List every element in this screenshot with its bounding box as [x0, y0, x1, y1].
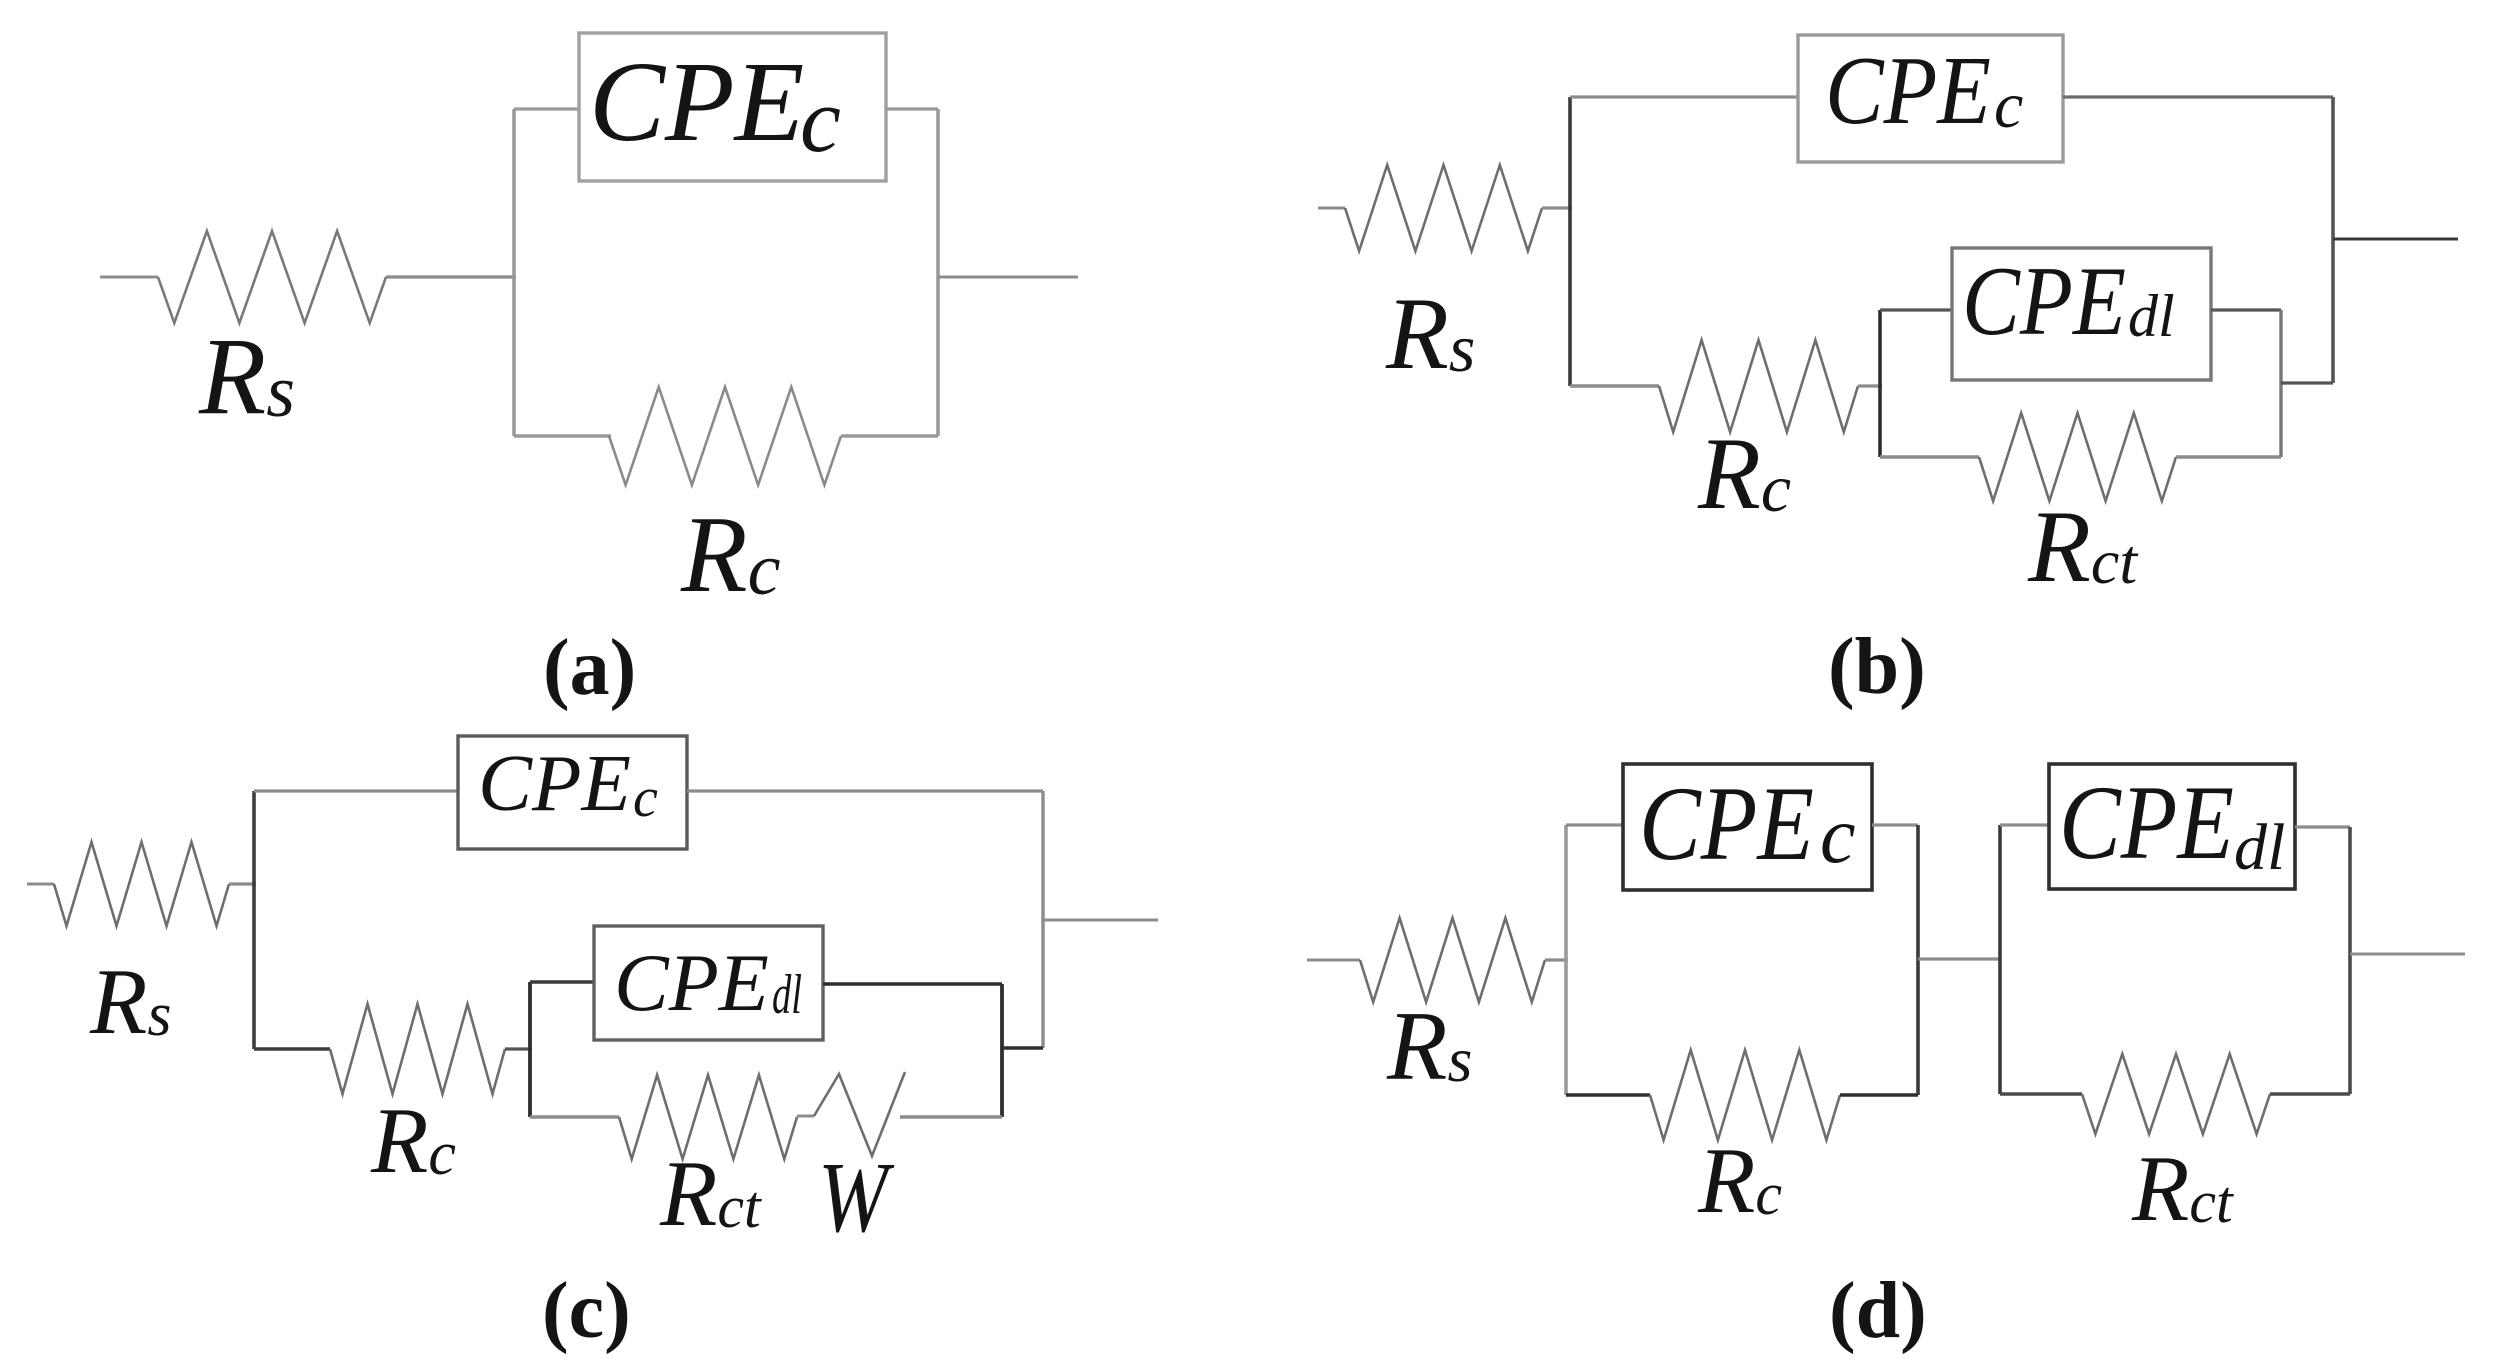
resistor Rs (a): [158, 231, 386, 323]
svg-text:CPE: CPE: [614, 937, 769, 1028]
wire inner-right vertical b: [2279, 310, 2282, 457]
wire input a: [100, 276, 158, 279]
wire middle link d: [1918, 957, 2000, 960]
svg-text:c: c: [1994, 69, 2023, 142]
resistor Rs (c): [54, 842, 229, 926]
capacitor-box CPEdl (c): [594, 926, 823, 1040]
resistor Rc (d): [1650, 1050, 1840, 1140]
wire inner-top-left b: [1880, 308, 1952, 311]
wire bottom-left d: [1566, 1093, 1650, 1096]
wire left vertical b: [1568, 97, 1572, 386]
wire bottom-left b: [1570, 384, 1659, 387]
svg-text:c: c: [633, 767, 658, 829]
resistor Rc (a): [609, 387, 841, 485]
svg-text:c: c: [1820, 792, 1856, 880]
wire top-left b: [1570, 95, 1798, 98]
wire Rs-to-junction a: [386, 275, 516, 278]
capacitor-box CPEc (a): [579, 33, 886, 181]
wire inner-top-left c: [530, 980, 594, 983]
wire bottom-right a: [841, 434, 938, 437]
wire inner-bottom-right c: [900, 1115, 1002, 1118]
svg-text:(b): (b): [1828, 623, 1926, 711]
wire bottom-right d: [1840, 1093, 1918, 1096]
capacitor-box CPEc (d): [1623, 764, 1872, 890]
wire left vertical c: [252, 791, 256, 1049]
svg-text:c: c: [800, 69, 841, 171]
wire inner-top-right b: [2211, 308, 2281, 311]
wire inner-left vertical b: [1878, 310, 1882, 457]
resistor Rc (b): [1659, 340, 1858, 432]
wire bottom-right2 d: [2270, 1092, 2350, 1095]
wire Rct-W link c: [797, 1115, 814, 1118]
wire top-right d: [1872, 823, 1918, 826]
wire input c: [27, 883, 54, 886]
wire top-left a: [514, 107, 581, 110]
wire inner-top-right c: [823, 982, 1002, 985]
wire bottom-left2 d: [2000, 1092, 2082, 1095]
svg-text:CPE: CPE: [1639, 765, 1814, 882]
capacitor-box CPEc (c): [458, 736, 687, 849]
wire output a: [938, 276, 1078, 279]
svg-text:dl: dl: [772, 964, 802, 1026]
svg-text:CPE: CPE: [1962, 247, 2126, 356]
wire bottom-left a: [514, 434, 611, 437]
capacitor-box CPEc (b): [1798, 35, 2063, 162]
wire right vertical d: [1916, 825, 1920, 1095]
svg-text:(d): (d): [1829, 1267, 1927, 1355]
wire output d: [2350, 953, 2465, 956]
wire second-left vertical d: [1998, 825, 2002, 1094]
wire inner-right vertical c: [1000, 984, 1004, 1117]
wire Rc-to-inner b: [1858, 384, 1882, 387]
wire connector c: [1002, 1046, 1043, 1049]
resistor Rc (c): [330, 1004, 505, 1094]
wire inner-left vertical c: [528, 982, 532, 1117]
resistor Rs (b): [1345, 165, 1542, 251]
resistor W warburg (c): [814, 1072, 905, 1156]
wire top-left c: [254, 789, 458, 792]
wire top-right c: [687, 789, 1043, 792]
capacitor-box CPEdl (b): [1952, 247, 2211, 380]
wire Rs-to-junction c: [229, 882, 256, 885]
wire left vertical d: [1564, 825, 1568, 1095]
svg-text:(c): (c): [542, 1267, 631, 1355]
wire inner-bottom-right b: [2176, 455, 2281, 458]
svg-text:CPE: CPE: [2059, 764, 2234, 881]
resistor Rct (c): [619, 1075, 797, 1159]
wire input b: [1318, 207, 1345, 210]
wire top-right b: [2063, 95, 2333, 98]
wire Rc-to-inner c: [505, 1047, 532, 1050]
svg-text:CPE: CPE: [589, 38, 804, 165]
wire right vertical a: [936, 109, 940, 436]
wire inner-bottom-left c: [530, 1115, 619, 1118]
wire inner-bottom-left b: [1880, 455, 1979, 458]
wire Rs-to-junction b: [1542, 206, 1572, 209]
svg-text:CPE: CPE: [478, 738, 631, 828]
wire output c: [1043, 919, 1158, 922]
svg-text:W: W: [818, 1141, 895, 1253]
svg-text:dl: dl: [2128, 283, 2175, 349]
wire top-left2 d: [2000, 823, 2049, 826]
wire top-right a: [886, 107, 938, 110]
resistor Rs (d): [1360, 918, 1545, 1002]
wire output b: [2333, 238, 2458, 241]
wire right vertical b: [2331, 97, 2335, 383]
svg-text:CPE: CPE: [1825, 37, 1991, 144]
wire left vertical a: [512, 109, 516, 436]
wire connector b: [2281, 381, 2333, 384]
wire top-right2 d: [2295, 825, 2350, 828]
capacitor-box CPEdl (d): [2049, 764, 2295, 889]
svg-text:(a): (a): [543, 624, 636, 712]
wire bottom-left c: [254, 1047, 330, 1050]
wire right vertical2 d: [2348, 827, 2352, 1094]
wire right vertical c: [1041, 791, 1044, 1048]
resistor Rct (b): [1979, 413, 2176, 501]
wire top-left d: [1566, 823, 1623, 826]
wire Rs-to-junction d: [1545, 958, 1568, 961]
resistor Rct (d): [2082, 1054, 2270, 1134]
svg-text:dl: dl: [2234, 811, 2285, 884]
wire input d: [1307, 959, 1360, 962]
